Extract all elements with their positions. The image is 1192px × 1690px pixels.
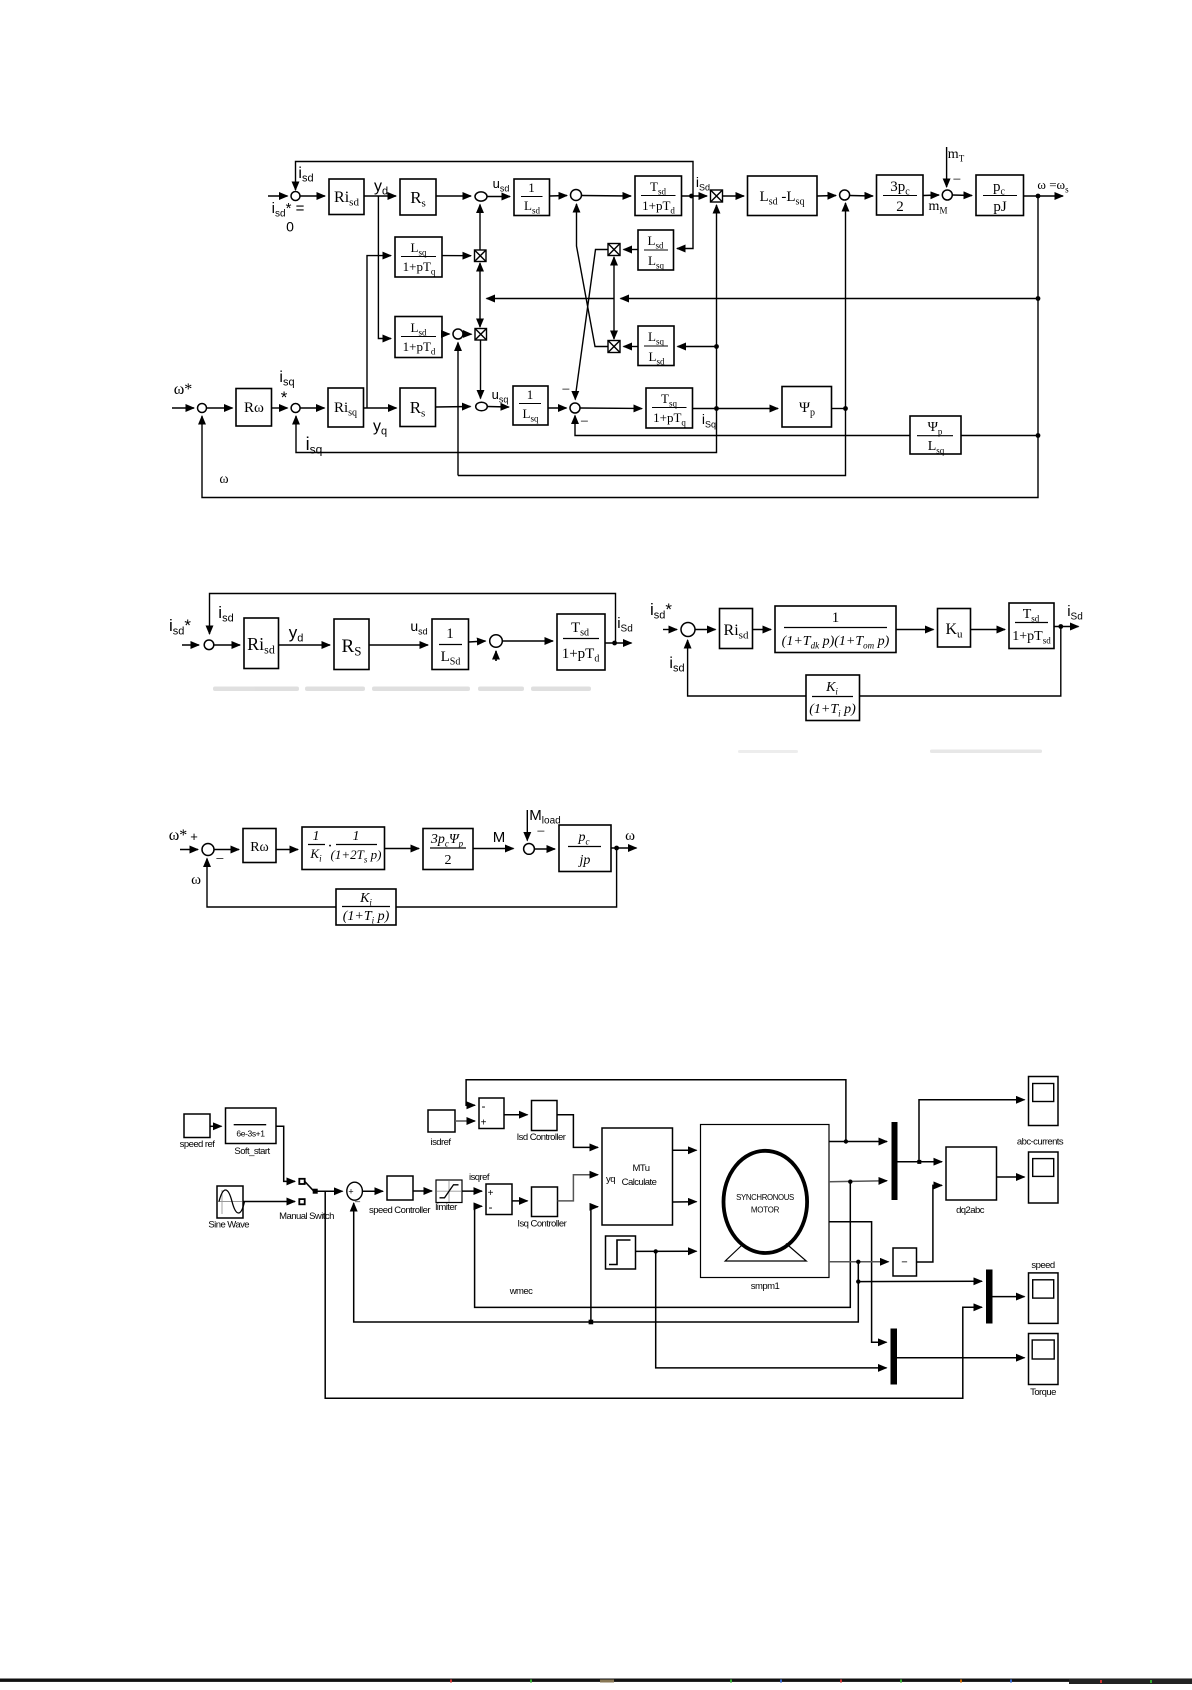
wire motor output4 speed to gain (829, 1261, 889, 1263)
wire cross-coupling MR1 to q-axis node N2q (575, 250, 608, 400)
svg-text:-: - (489, 1200, 493, 1214)
wire mM node to pc/pJ (952, 194, 972, 197)
block 3pcPsip/2 fig4 (423, 829, 473, 870)
wire isq vertical up to multiplier M-top (716, 205, 718, 409)
wire isdref to isd sum plus input (455, 1120, 475, 1122)
block Ri_sq q-axis current controller (328, 388, 364, 427)
svg-text:abc-currents: abc-currents (1017, 1137, 1064, 1148)
svg-text:MTu: MTu (633, 1163, 650, 1174)
block Lsd/Lsq ratio (638, 230, 674, 270)
block isdref source (428, 1110, 455, 1132)
wire motor output1 currents to mux (829, 1141, 887, 1143)
wire tap up to currents scope1 (919, 1100, 1025, 1162)
node N2d summing junction (571, 190, 582, 201)
wire node to Tsd fig2 (503, 640, 554, 642)
mux torque bar (891, 1329, 898, 1385)
wire Mload input fig4 (526, 810, 528, 841)
block Soft_start transfer fcn (226, 1108, 277, 1144)
svg-text:Torque: Torque (1030, 1387, 1056, 1398)
wire Rs to usd node (436, 195, 471, 197)
wire N3 to M2 (463, 333, 472, 335)
svg-text:Isq Controller: Isq Controller (517, 1219, 566, 1230)
node usq summing junction (476, 402, 488, 411)
multiplier M-top isd x coupling (711, 190, 723, 202)
wire feedback right segment fig3 (860, 627, 1061, 697)
svg-text:−: − (580, 414, 588, 430)
svg-text:(1+Ti p): (1+Ti p) (343, 909, 390, 926)
block Ri_sd d-axis current controller (329, 179, 364, 215)
wire speed mux output to speed scope (993, 1296, 1025, 1298)
svg-text:2: 2 (896, 199, 904, 215)
node input summing junction fig3 (681, 623, 695, 637)
scope block top unnamed (1029, 1077, 1059, 1126)
svg-text:1: 1 (313, 829, 320, 844)
wire N2q to Tsq block (580, 407, 642, 410)
block Rs d-axis (400, 179, 436, 215)
node mM summing junction (942, 190, 952, 200)
wire Isq Controller to MTu yq input (558, 1175, 599, 1201)
wire Psi-p output to torque feed junction (832, 408, 846, 410)
wire Ku to Tsd fig3 (971, 629, 1006, 631)
wire yd branch down to Lsd lag block (378, 196, 391, 339)
wire plant to Ku fig3 (896, 629, 934, 631)
block Psi-p/Lsq back-emf (910, 416, 961, 454)
wire Lsd block to node N3 (442, 333, 450, 335)
block gain minus one (893, 1248, 917, 1276)
wire psi branch down to flux line (458, 409, 846, 476)
multiplier MR1 (608, 244, 620, 256)
wire switch output to speed sum (315, 1190, 343, 1192)
wire dq2abc to abc-currents scope (997, 1176, 1025, 1178)
node N2q summing junction (570, 403, 580, 413)
svg-text:+: + (190, 829, 198, 844)
svg-text:*: * (281, 388, 288, 407)
svg-text:2: 2 (445, 853, 452, 868)
wire feedback right segment fig4 (396, 848, 617, 907)
svg-text:−: − (537, 824, 545, 840)
wire Ri_sq to Rs q with yq branch (364, 407, 397, 409)
block plant 1/((1+Tdk p)(1+Tom p)) fig3 (775, 606, 896, 653)
svg-text:−: − (562, 382, 570, 398)
wire Tsd output to multiplier with iSd junction (682, 195, 708, 197)
svg-text:MOTOR: MOTOR (751, 1206, 780, 1215)
multiplier M2 (475, 329, 487, 341)
svg-text:yq: yq (606, 1174, 615, 1185)
svg-text:jp: jp (578, 853, 591, 868)
wire mT load torque input (946, 147, 948, 187)
svg-text:SYNCHRONOUS: SYNCHRONOUS (736, 1193, 794, 1202)
svg-text:1: 1 (528, 180, 535, 195)
wire usq node to 1/Lsq (487, 406, 509, 409)
wire node to R-omega fig4 (214, 849, 239, 851)
svg-text:ω =ωs: ω =ωs (1037, 177, 1069, 195)
wire isq feed into Lsq/Lsd (678, 346, 717, 348)
wire isq node to Ri_sq (300, 407, 325, 409)
block limiter saturation (436, 1180, 462, 1203)
block dq2abc transform (946, 1147, 997, 1200)
svg-text:(1+Ti p): (1+Ti p) (809, 702, 856, 719)
block Tsd/(1+pTsd) fig3 (1009, 603, 1054, 649)
block Lsq/Lsd ratio (638, 326, 674, 366)
svg-text:pJ: pJ (993, 199, 1007, 215)
wire Ri_sd to Rs with yd branch (364, 195, 396, 197)
wire motor output2 to mux (829, 1180, 887, 1183)
wire soft start to switch top port (276, 1126, 295, 1181)
wire cross-coupling MR2 to d-axis node N2d (577, 204, 609, 347)
svg-text:−: − (953, 172, 961, 188)
wire speed-ref tap down to speed scope mux (325, 1191, 982, 1398)
svg-text:M: M (493, 829, 506, 846)
multiplier M1 (475, 250, 487, 262)
node isq input summing junction (291, 404, 300, 413)
wire load node to pc/jp fig4 (535, 848, 556, 850)
block Lsd-Lsq (748, 176, 818, 216)
svg-text:+: + (488, 1188, 494, 1199)
wire iSd down into Lsd/Lsq (677, 196, 693, 249)
block Tsq/(1+pTq) (646, 388, 693, 428)
wire feedback left segment fig4 (207, 859, 336, 908)
wire lag to torque-gain fig4 (385, 848, 420, 850)
wire node to Ri_sd fig2 (214, 644, 240, 646)
wire node to Ri_sd fig3 (695, 629, 716, 631)
wire step to motor load input with torque tap (636, 1250, 697, 1252)
block 1/Lsd fig2 (432, 619, 469, 670)
block Lsq/(1+pTq) (395, 237, 442, 277)
wire Lsq block to multiplier M1 (442, 255, 471, 257)
wire wmec branch down-left to speed sum (354, 1203, 859, 1322)
wire speed controller to limiter (413, 1190, 432, 1192)
wire N2d to Tsd block (582, 195, 632, 198)
svg-text:smpm1: smpm1 (751, 1281, 780, 1292)
mux speed bar (986, 1270, 993, 1324)
wire Ri_sd to Rs fig2 (279, 644, 331, 646)
block Psi-p (782, 387, 832, 428)
scope block Torque (1029, 1334, 1059, 1385)
block synchronous motor smpm1 (701, 1125, 830, 1278)
wire wmec feedback to MTu bottom input (591, 1207, 598, 1322)
block Isd Controller (532, 1101, 558, 1131)
svg-text:ω: ω (191, 872, 201, 888)
wire omega into M2 from above (479, 299, 481, 328)
svg-text:speed Controller: speed Controller (369, 1205, 430, 1216)
svg-text:Sine Wave: Sine Wave (208, 1220, 249, 1231)
wire mux1 output to dq2abc (898, 1161, 943, 1163)
wire isd measured feedback to isd sum minus input (466, 1080, 846, 1142)
node N1 d-axis input summing junction (291, 192, 300, 201)
port square bottom of manual switch (299, 1199, 304, 1204)
bottom scan bar (0, 1679, 1192, 1682)
wire MTu output2 to motor (673, 1201, 697, 1203)
svg-text:Calculate: Calculate (622, 1177, 657, 1188)
wire torque node to 3pc/2 (850, 195, 873, 198)
svg-text:Rω: Rω (244, 400, 264, 416)
svg-text:dq2abc: dq2abc (956, 1205, 985, 1216)
stub arrow into node from below fig2 (495, 651, 497, 661)
block Ri_sd fig2 (244, 618, 279, 669)
wire Lsd-Lsq to torque node (817, 195, 836, 198)
wire omega distribution line right segment (621, 298, 1039, 300)
wire gain to dq2abc input2 (917, 1185, 943, 1262)
wire R-omega to lag block fig4 (276, 849, 298, 851)
svg-text:speed: speed (1031, 1260, 1054, 1271)
node omega summing junction (198, 404, 207, 413)
svg-text:+: + (348, 1186, 353, 1196)
node disturbance junction fig2 (490, 635, 503, 648)
mux abc-currents bar (892, 1122, 898, 1200)
wire M to load node fig4 (473, 848, 514, 850)
svg-text:ω*: ω* (169, 827, 188, 844)
node load summing junction fig4 (524, 844, 535, 855)
svg-text:1+pTd: 1+pTd (562, 646, 600, 665)
wire isd feedback loop fig2 (210, 594, 616, 644)
wire usd node down-feed from M1 (479, 205, 481, 251)
wire speed sum to speed controller (362, 1190, 383, 1192)
node N3 flux summing junction (453, 329, 463, 339)
wire yq branch up to Lsq block (367, 256, 391, 408)
block speed Controller (387, 1176, 413, 1200)
wire omega output fig4 (611, 847, 637, 849)
block Ki/(1+Tip) feedback fig4 (336, 889, 396, 925)
wire 3pc/2 to mM node (923, 194, 939, 197)
wire psi feed up into N3 (457, 343, 459, 476)
wire Rs to usq node (436, 406, 471, 409)
wire sine wave to switch bottom port (243, 1201, 295, 1203)
svg-text:(1+Tdk p)(1+Tom p): (1+Tdk p)(1+Tom p) (782, 634, 890, 651)
block Lsd/(1+pTd) (395, 317, 442, 358)
svg-text:isqref: isqref (469, 1172, 490, 1183)
wire iSd output fig2 (605, 642, 632, 644)
wire Rs to 1/Lsd fig2 (369, 644, 428, 646)
wire isd* input to node N1 (268, 195, 288, 197)
block isq error sum (486, 1184, 512, 1215)
wire isd* input fig2 (182, 644, 199, 646)
wire 1/Lsd to node fig2 (469, 641, 486, 642)
svg-text:limiter: limiter (435, 1202, 457, 1213)
svg-text:isdref: isdref (431, 1137, 452, 1148)
svg-text:+: + (481, 1118, 487, 1129)
wire isd* input fig3 (663, 629, 677, 631)
node torque summing junction (840, 190, 850, 200)
block Sine Wave source (217, 1186, 243, 1218)
manual switch lever (305, 1181, 314, 1190)
wire R-omega to isq node (272, 407, 288, 409)
block pc/jp fig4 (559, 825, 611, 872)
wire isd feedback top loop (296, 162, 694, 197)
wire 1/Lsq to node N2q (548, 407, 567, 409)
node usd summing junction (475, 192, 487, 201)
wire isq measured feedback loop to isq sum minus (475, 1182, 851, 1308)
svg-text:−: − (901, 1257, 907, 1269)
svg-text:ω: ω (625, 828, 635, 844)
wire back-emf feedback to N2q (575, 416, 910, 436)
wire torque mux output to torque scope (897, 1357, 1025, 1359)
caption smudge fig3 (930, 750, 1042, 754)
wire omega node to R-omega (207, 407, 233, 409)
block R-omega fig4 (243, 829, 276, 863)
svg-text:_: _ (354, 1192, 361, 1202)
block Ri_sd fig3 (720, 609, 753, 649)
wire Lsq/Lsd to multiplier MR2 (624, 346, 639, 348)
svg-text:(1+2Ts p): (1+2Ts p) (331, 847, 382, 865)
block Isq Controller (532, 1187, 558, 1217)
svg-text:Isd Controller: Isd Controller (517, 1132, 566, 1143)
block Tsd fig2 (557, 614, 605, 670)
block pc/pJ (976, 175, 1024, 216)
wire isd sum to Isd Controller (504, 1114, 528, 1116)
wire Ri_sd to plant fig3 (753, 629, 772, 631)
svg-text:−: − (216, 852, 224, 868)
block 3pc/2 (877, 175, 924, 215)
svg-text:0: 0 (286, 219, 294, 235)
block speed ref source (184, 1114, 210, 1138)
block Ku fig3 (938, 609, 971, 648)
wire omega output (1024, 195, 1064, 197)
wire Tsq to Psi-p with isq junction (693, 408, 779, 410)
svg-text:speed ref: speed ref (180, 1139, 216, 1150)
wire isq sum to Isq Controller (512, 1200, 528, 1202)
block Rs fig2 (334, 619, 369, 670)
node speed summing junction fig4 (202, 844, 214, 856)
svg-text:1: 1 (832, 610, 840, 626)
svg-text:1: 1 (527, 387, 534, 402)
wire limiter to isq sum (462, 1190, 482, 1192)
wire load torque tap down to torque mux (656, 1251, 887, 1368)
caption smudge fig2 (213, 687, 591, 692)
wire motor output3 torque down to torque mux (829, 1222, 887, 1343)
block load step source (606, 1236, 636, 1269)
block 1/Lsq integrator (513, 386, 548, 425)
block R-omega speed controller (236, 389, 272, 427)
svg-text:ω: ω (219, 472, 228, 487)
node speed error sum ellipse (347, 1182, 363, 1200)
wire feedback left segment fig3 (688, 640, 806, 696)
svg-text:-: - (482, 1099, 486, 1113)
block isd error sum (479, 1098, 504, 1129)
wire Lsd/Lsq to multiplier MR1 (624, 249, 639, 251)
wire speed ref to soft start (210, 1125, 222, 1127)
block Ki/(1+Ti p) feedback fig3 (806, 675, 860, 721)
svg-text:6e-3s+1: 6e-3s+1 (236, 1129, 265, 1139)
wire 1/Lsd to node N2d (550, 195, 568, 198)
wire omega into M1 from below (479, 263, 481, 299)
wire torque feed up into torque node (845, 203, 847, 409)
wire omega into MR1 from below (613, 257, 615, 299)
wire iSd output fig3 (1054, 626, 1079, 628)
wire N1 to Ri_sd (300, 195, 325, 197)
block 1/Lsd integrator (514, 179, 550, 216)
port square top of manual switch (299, 1179, 304, 1184)
svg-text:wmec: wmec (509, 1286, 533, 1297)
svg-text:ω*: ω* (174, 381, 193, 398)
block MTu Calculate (602, 1128, 673, 1225)
node input summing junction fig2 (204, 640, 214, 650)
block Rs q-axis (400, 388, 436, 427)
wire M2 down to usq node (480, 340, 482, 399)
svg-text:1: 1 (446, 626, 454, 642)
wire wmec branch to speed mux input1 (858, 1280, 982, 1282)
wire isq feedback loop (296, 409, 717, 453)
block Tsd/(1+pTd) (635, 176, 682, 216)
wire usd node to 1/Lsd (487, 196, 510, 198)
svg-text:Soft_start: Soft_start (234, 1146, 270, 1157)
wire MTu output1 to motor (673, 1149, 697, 1151)
svg-text:1: 1 (353, 829, 360, 844)
block 1/Ki 1/(1+2Tsp) fig4 (302, 827, 385, 870)
wire multiplier to Lsd-Lsq block (723, 195, 745, 197)
wire omega into MR2 from above (613, 299, 615, 340)
multiplier MR2 (608, 341, 620, 353)
wire omega distribution line left segment (487, 298, 615, 300)
wire omega* input (172, 407, 194, 409)
wire Isd Controller to MTu input1 (557, 1115, 598, 1148)
wire omega* input fig4 (180, 849, 198, 851)
wire back-emf block to omega vertical (961, 435, 1038, 437)
svg-text:Rω: Rω (250, 840, 269, 855)
wire omega feedback loop (202, 196, 1038, 498)
